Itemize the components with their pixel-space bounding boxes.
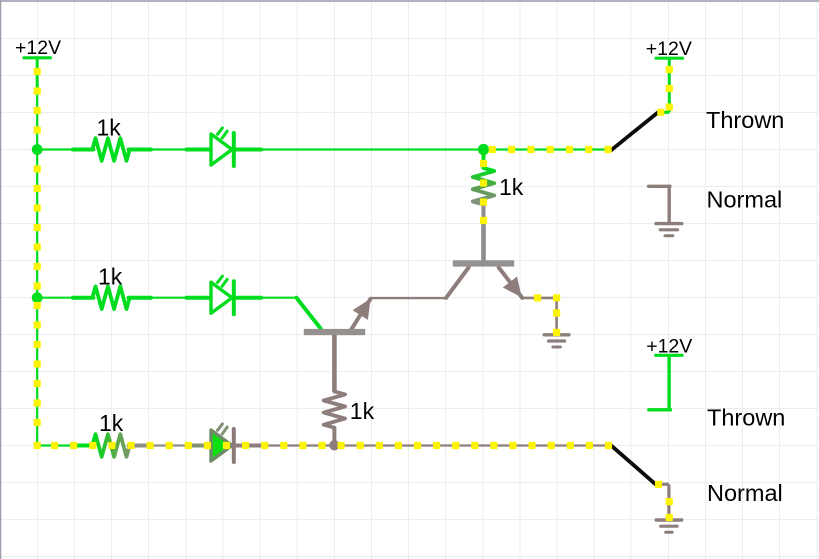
- svg-text:Thrown: Thrown: [706, 107, 784, 133]
- switch SW2 blade (normal position, black): [612, 446, 656, 485]
- wire: row 2 from D2 to Q1 base terminal: [261, 297, 297, 299]
- wire: Q2 emitter to ground GND3: [522, 298, 556, 333]
- wire: row 3 between R5 and LED D3: [151, 444, 187, 446]
- resistor R3 1k (vertical, node C to Q2 collector): [473, 150, 494, 225]
- Q2 emitter lead with arrow: [499, 268, 523, 298]
- wire: row 1 from D1 to node C: [261, 148, 484, 150]
- svg-text:1k: 1k: [350, 398, 375, 424]
- svg-text:+12V: +12V: [646, 335, 692, 357]
- LED D3 (row 3, lit): [187, 424, 262, 462]
- current dots on resistor R3 column: [480, 160, 487, 224]
- svg-text:1k: 1k: [98, 264, 123, 290]
- wire: left +12V rail from V1 down to row 3 corner: [36, 58, 39, 446]
- Q1 collector lead: [332, 335, 337, 392]
- current dots on row 1 right segment: [489, 146, 612, 153]
- Q1 base bar: [304, 329, 365, 335]
- current dots on row 3: [51, 442, 612, 449]
- current dots on SW2-to-ground wire: [655, 481, 673, 521]
- wire: SW2 normal contact to ground GND2: [656, 484, 669, 518]
- svg-text:+12V: +12V: [646, 38, 692, 60]
- wire: row 1 from node C to switch SW1 common: [484, 148, 612, 150]
- Q2 collector lead: [481, 224, 486, 261]
- Q2 base lead: [446, 268, 469, 298]
- wire: row 1 from node A to resistor R1: [37, 148, 73, 150]
- power supply V3 +12V (bottom right): [646, 335, 692, 357]
- power supply V2 +12V (top right): [646, 38, 692, 60]
- power supply V1 +12V (top left): [15, 37, 61, 59]
- node B: junction of left rail and row 2: [32, 292, 43, 303]
- Q2 base bar: [453, 260, 514, 266]
- current dots on left rail: [34, 68, 41, 449]
- svg-text:Thrown: Thrown: [707, 405, 785, 431]
- Q1 base lead (green, from row 2): [296, 298, 321, 329]
- wire: row 2 gray, Q1 emitter to Q2 base: [370, 297, 446, 299]
- resistor R4 1k (vertical, Q1 collector to node D): [324, 391, 345, 445]
- resistor R5 1k (row 3, green-to-gray): [73, 434, 151, 457]
- wire: row 3 from corner to resistor R5: [37, 444, 73, 446]
- node D: junction row 3 / R4: [329, 440, 339, 450]
- ground GND1 (SW1 normal contact): [656, 224, 682, 236]
- wire: row 1 between R1 and LED D1: [151, 148, 187, 150]
- wire: SW1 thrown contact stub to +12V: [658, 111, 670, 114]
- wire: row 3 from D3 to node D: [261, 444, 334, 446]
- node A: junction of left rail and row 1: [32, 144, 43, 155]
- Q1 emitter lead with arrow: [352, 299, 371, 329]
- svg-text:Normal: Normal: [707, 480, 783, 506]
- wire: row 2 from node B to resistor R2: [37, 297, 73, 299]
- SW1 normal contact (gray, unconnected): [649, 186, 670, 224]
- svg-text:Normal: Normal: [707, 186, 783, 212]
- ground GND2 (SW2 normal path): [656, 520, 682, 532]
- LED D1 (row 1, off): [187, 128, 262, 166]
- svg-text:1k: 1k: [499, 174, 524, 200]
- switch SW1 blade (thrown position, black): [611, 113, 658, 151]
- wire: row 3 from node D to switch SW2 common: [334, 444, 611, 446]
- svg-text:+12V: +12V: [15, 37, 61, 59]
- svg-text:1k: 1k: [97, 115, 122, 141]
- ground GND3 (Q2 emitter): [544, 335, 569, 347]
- transistor Q2 (NPN, collector up): [446, 224, 522, 298]
- wire: V2 lead down to SW1 thrown contact: [668, 58, 671, 112]
- current dots on SW1 +12V drop: [657, 66, 673, 116]
- resistor R1 1k (row 1): [73, 138, 151, 161]
- resistor R2 1k (row 2): [73, 286, 151, 309]
- svg-text:1k: 1k: [99, 410, 124, 436]
- node C: junction row 1 / resistor R3: [478, 144, 489, 155]
- wire: row 2 between R2 and LED D2: [151, 297, 187, 299]
- transistor Q1 (NPN, collector down): [296, 298, 370, 392]
- LED D2 (row 2, off): [187, 276, 262, 314]
- wire: V3 lead down to SW2 thrown contact (green, open): [649, 355, 671, 410]
- current dots on Q2 emitter-to-ground wire: [534, 294, 560, 336]
